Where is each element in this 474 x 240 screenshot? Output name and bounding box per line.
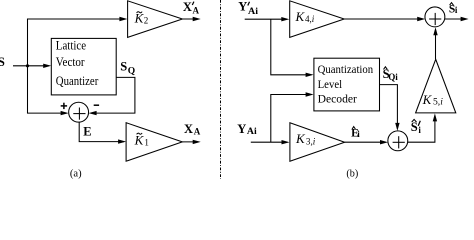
svg-text:Y: Y (238, 0, 247, 14)
svg-text:(b): (b) (346, 167, 358, 179)
summer circle bottom (b) (388, 131, 408, 151)
wire K2 output (182, 18, 198, 20)
wire top branch to K2 input (27, 18, 125, 20)
svg-text:X: X (183, 0, 192, 14)
svg-text:A: A (193, 6, 200, 16)
wire SQ feedback to summer minus input (91, 77, 135, 113)
svg-text:Q: Q (128, 66, 135, 76)
svg-text:X: X (184, 122, 193, 136)
amplifier K1 triangle (126, 123, 182, 162)
svg-text:Lattice: Lattice (56, 38, 87, 52)
svg-text:5,i: 5,i (433, 97, 443, 107)
wire K1 output (182, 141, 198, 143)
wire K5i output to top summer (435, 30, 437, 59)
minus sign label at summer input (94, 104, 99, 106)
svg-text:Quantizer: Quantizer (56, 74, 99, 88)
svg-text:S: S (120, 60, 127, 74)
svg-text:K: K (295, 131, 306, 146)
divider dash-dot line (220, 0, 222, 179)
wire bottom summer output up to K5i (408, 116, 435, 142)
wire SQi from decoder to bottom summer (380, 85, 398, 129)
svg-text:Y: Y (237, 122, 246, 136)
amplifier K2 triangle (128, 1, 183, 38)
svg-text:1: 1 (144, 138, 149, 148)
wire Si-hat output (445, 18, 467, 20)
svg-text:K: K (134, 132, 145, 147)
svg-text:3,i: 3,i (306, 136, 316, 146)
wire K4i output to top summer (344, 18, 423, 20)
summer circle top (b) (425, 7, 445, 27)
amplifier K4i triangle (290, 1, 345, 38)
lattice vector quantizer box (51, 38, 116, 95)
svg-text:4,i: 4,i (305, 14, 315, 24)
svg-text:K: K (295, 9, 306, 24)
quantization level decoder box (314, 58, 380, 111)
svg-text:E: E (83, 125, 91, 139)
wire YAi input (251, 141, 287, 143)
wire branch up to decoder input 2 (271, 95, 312, 143)
wire summer plus input horizontal (27, 112, 67, 114)
wire Ei-hat from K3i to bottom summer (345, 141, 386, 143)
plus sign label at summer input (61, 105, 67, 107)
svg-text:K: K (422, 92, 433, 107)
amplifier K3i triangle (290, 123, 345, 162)
summer circle (a) (69, 102, 89, 122)
amplifier K5i triangle (416, 59, 456, 113)
wire vertical from node S up to K2 and down to summer (27, 19, 29, 113)
junction dot at node S (26, 64, 29, 67)
svg-text:Qi: Qi (388, 73, 398, 83)
svg-text:S: S (0, 55, 5, 69)
svg-text:Decoder: Decoder (318, 91, 357, 105)
svg-text:Level: Level (318, 77, 343, 91)
wire S input horizontal (13, 65, 49, 67)
svg-text:Ai: Ai (248, 6, 259, 16)
svg-text:Quantization: Quantization (318, 62, 374, 76)
svg-text:A: A (194, 127, 201, 137)
wire branch down to decoder input 1 (271, 19, 312, 75)
svg-text:Ai: Ai (247, 126, 257, 136)
svg-text:2: 2 (144, 16, 149, 26)
wire E from summer to K1 (79, 122, 124, 142)
svg-text:Vector: Vector (56, 55, 86, 69)
svg-text:(a): (a) (70, 167, 82, 179)
wire YA-prime-i input (245, 18, 287, 20)
